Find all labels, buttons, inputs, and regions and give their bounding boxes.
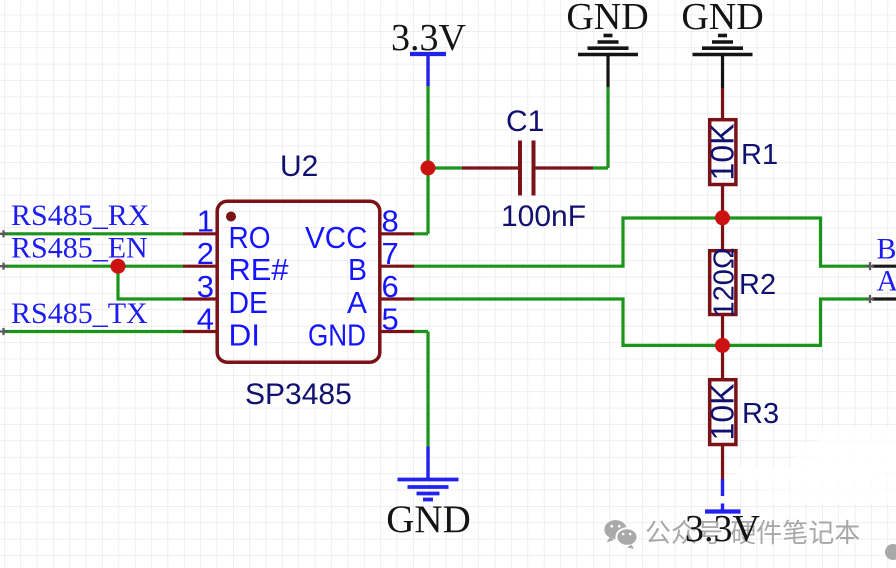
svg-text:U2: U2: [280, 150, 318, 183]
U2 pin 3 DE: [183, 269, 268, 320]
svg-text:A: A: [877, 265, 896, 298]
U2 pin 8 VCC: [305, 204, 414, 255]
svg-text:1: 1: [197, 204, 214, 239]
svg-text:B: B: [348, 252, 367, 287]
svg-text:B: B: [877, 233, 896, 266]
ground symbol GND bottom (blue): [386, 447, 471, 542]
junction at 3.3V/VCC/C1: [421, 161, 436, 176]
node cross RX left: [0, 230, 8, 237]
wire 3.3V to VCC pin 8: [414, 86, 462, 234]
svg-text:3.3V: 3.3V: [391, 17, 467, 59]
U2 pin 6 A: [347, 269, 414, 320]
U2 pin 4 DI: [183, 301, 260, 352]
svg-text:DE: DE: [229, 285, 269, 320]
svg-text:2: 2: [197, 236, 214, 271]
svg-text:3.3V: 3.3V: [685, 508, 761, 550]
ground symbol GND top-left: [566, 0, 648, 87]
svg-text:RO: RO: [229, 220, 271, 255]
svg-text:10K: 10K: [705, 124, 741, 181]
wire RS485_RX net: [3, 232, 183, 235]
svg-text:RE#: RE#: [229, 252, 290, 287]
junction at EN/RE#/DE: [111, 259, 126, 274]
wire EN to DE link: [118, 266, 183, 299]
svg-text:GND: GND: [681, 0, 763, 38]
watermark corner blob: [885, 544, 896, 560]
svg-text:6: 6: [382, 269, 399, 304]
wire B net: [414, 218, 869, 266]
svg-text:GND: GND: [308, 318, 366, 353]
node cross B port: [866, 262, 874, 270]
node cross TX left: [0, 328, 8, 335]
node cross A port: [866, 295, 874, 303]
pin 1 dot: [226, 212, 236, 222]
svg-text:VCC: VCC: [305, 220, 368, 255]
wire RS485_TX net: [3, 330, 183, 333]
svg-text:SP3485: SP3485: [245, 378, 352, 411]
svg-text:4: 4: [197, 301, 214, 336]
wire C1 to GND: [593, 87, 608, 168]
U2 pin 7 B: [348, 236, 414, 287]
U2 pin 5 GND: [308, 301, 414, 352]
svg-text:R3: R3: [742, 398, 779, 430]
wire RS485_EN net: [3, 265, 183, 268]
wire A net: [414, 299, 869, 345]
U2 pin 1 RO: [183, 204, 271, 255]
watermark smudge blocks: [737, 428, 896, 505]
resistor R3: [705, 345, 780, 479]
svg-text:RS485_RX: RS485_RX: [11, 199, 150, 232]
wire pin 5 to GND: [414, 332, 428, 447]
svg-text:10K: 10K: [705, 384, 741, 441]
svg-text:RS485_TX: RS485_TX: [11, 297, 148, 330]
power symbol 3.3V bottom: [685, 479, 761, 550]
svg-text:R1: R1: [741, 139, 778, 171]
capacitor C1: [462, 105, 593, 233]
svg-text:100nF: 100nF: [501, 200, 586, 233]
svg-text:C1: C1: [506, 105, 544, 138]
ground symbol GND top-right: [681, 0, 763, 88]
op IC U2 body: [217, 150, 380, 411]
junction R1/R2/B tie: [715, 210, 730, 225]
watermark wechat icon: [604, 520, 637, 549]
wire B black segment: [872, 265, 896, 268]
resistor R2: [709, 218, 777, 345]
svg-text:A: A: [347, 285, 367, 320]
svg-text:RS485_EN: RS485_EN: [11, 232, 148, 265]
svg-text:R2: R2: [739, 269, 776, 301]
wire A black segment: [872, 297, 896, 300]
svg-text:DI: DI: [229, 318, 261, 353]
U2 pin 2 RE#: [183, 236, 289, 287]
svg-text:7: 7: [382, 236, 399, 271]
node cross EN left: [0, 263, 8, 270]
svg-text:GND: GND: [566, 0, 648, 38]
svg-text:120Ω: 120Ω: [709, 247, 741, 317]
svg-text:8: 8: [382, 204, 399, 239]
resistor R1: [705, 88, 779, 218]
power symbol 3.3V top: [391, 17, 467, 86]
svg-text:GND: GND: [386, 498, 471, 541]
svg-text:5: 5: [382, 301, 399, 336]
junction R2/R3/A tie: [715, 338, 730, 353]
svg-text:3: 3: [197, 269, 214, 304]
